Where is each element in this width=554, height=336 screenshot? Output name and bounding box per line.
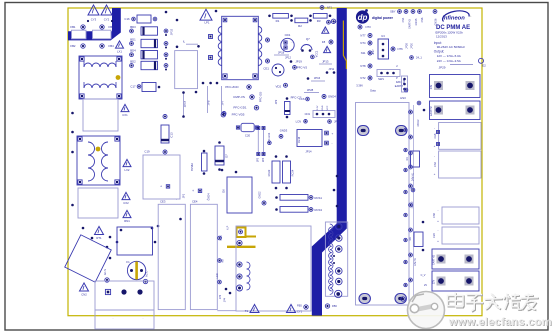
svg-text:F8: F8 xyxy=(322,40,326,44)
svg-text:BD2: BD2 xyxy=(130,59,136,63)
svg-text:RCS1: RCS1 xyxy=(315,196,323,200)
svg-text:-: - xyxy=(434,126,435,130)
svg-text:dp: dp xyxy=(358,13,368,22)
svg-text:PFC-GD1: PFC-GD1 xyxy=(233,106,246,110)
svg-text:+: + xyxy=(434,172,436,176)
svg-text:SW1: SW1 xyxy=(378,77,384,81)
svg-text:CMP-VS: CMP-VS xyxy=(233,95,245,99)
svg-text:NT3: NT3 xyxy=(366,25,372,29)
svg-text:C17: C17 xyxy=(130,85,136,89)
svg-text:NT7: NT7 xyxy=(360,34,366,38)
svg-text:2V: 2V xyxy=(424,284,427,287)
svg-text:LP1: LP1 xyxy=(205,21,210,25)
svg-text:24V: 24V xyxy=(430,84,433,89)
svg-text:EARTH3: EARTH3 xyxy=(409,19,412,29)
svg-text:D7: D7 xyxy=(225,154,229,158)
svg-text:JP4: JP4 xyxy=(224,297,227,302)
svg-text:CE16: CE16 xyxy=(298,136,301,143)
svg-text:LX2: LX2 xyxy=(125,168,130,172)
svg-text:+: + xyxy=(437,239,439,243)
svg-text:FB5: FB5 xyxy=(297,304,302,308)
svg-text:RCS4: RCS4 xyxy=(292,169,295,176)
svg-text:+: + xyxy=(160,185,162,189)
svg-text:C20: C20 xyxy=(245,133,251,137)
svg-text:GND4: GND4 xyxy=(208,193,211,201)
svg-text:CX2: CX2 xyxy=(123,201,129,205)
svg-text:3.36V: 3.36V xyxy=(356,84,363,88)
svg-text:LCN: LCN xyxy=(296,119,301,123)
svg-text:JP19: JP19 xyxy=(295,60,302,64)
svg-text:12V-I2: 12V-I2 xyxy=(411,201,414,209)
svg-text:T1: T1 xyxy=(245,309,249,313)
svg-text:GND4: GND4 xyxy=(328,95,336,99)
svg-text:+: + xyxy=(192,189,194,193)
svg-text:PFC-GD: PFC-GD xyxy=(259,92,263,102)
svg-text:FB2: FB2 xyxy=(70,44,76,48)
svg-text:C_V: C_V xyxy=(421,274,426,277)
svg-text:CE3: CE3 xyxy=(160,200,166,204)
svg-text:+: + xyxy=(437,219,439,223)
svg-text:VD2: VD2 xyxy=(275,84,281,88)
svg-text:HS3: HS3 xyxy=(400,96,406,100)
svg-text:HB: HB xyxy=(222,259,225,263)
svg-text:JP18: JP18 xyxy=(278,50,285,54)
svg-text:C13: C13 xyxy=(170,132,174,138)
svg-text:-: - xyxy=(143,316,144,320)
svg-text:CE5: CE5 xyxy=(433,232,436,237)
svg-text:24V-H1: 24V-H1 xyxy=(412,172,415,181)
svg-text:+: + xyxy=(291,47,293,51)
svg-text:+: + xyxy=(332,132,334,136)
svg-text:CY2: CY2 xyxy=(104,18,110,22)
svg-text:CS2: CS2 xyxy=(434,161,437,166)
svg-text:PFC-VS: PFC-VS xyxy=(297,65,307,69)
svg-text:-: - xyxy=(434,154,435,158)
svg-text:CN6: CN6 xyxy=(421,17,424,22)
svg-text:CN1: CN1 xyxy=(305,112,311,116)
svg-text:PFC-ZCD: PFC-ZCD xyxy=(225,85,239,89)
svg-text:VCC: VCC xyxy=(327,105,329,110)
svg-text:F1: F1 xyxy=(126,260,130,264)
svg-text:Output:: Output: xyxy=(434,50,445,54)
svg-text:9SN6A: 9SN6A xyxy=(191,163,194,171)
svg-text:NT6: NT6 xyxy=(398,47,404,51)
svg-text:-: - xyxy=(176,197,177,201)
svg-text:EARTH: EARTH xyxy=(395,85,404,88)
svg-text:FB3: FB3 xyxy=(109,25,115,29)
svg-text:CY1: CY1 xyxy=(297,310,303,314)
svg-text:JP20: JP20 xyxy=(411,43,414,49)
svg-text:VCC1: VCC1 xyxy=(316,50,319,57)
svg-text:EARTH1: EARTH1 xyxy=(433,254,436,264)
svg-text:JP16: JP16 xyxy=(314,76,321,80)
svg-text:-: - xyxy=(438,228,439,232)
svg-text:GND2: GND2 xyxy=(259,191,262,199)
svg-text:CX1: CX1 xyxy=(122,113,128,117)
svg-text:EARTH2: EARTH2 xyxy=(430,106,433,116)
svg-text:JP1: JP1 xyxy=(182,193,186,198)
svg-text:-: - xyxy=(438,208,439,212)
svg-text:CE4: CE4 xyxy=(192,200,198,204)
svg-text:FB4: FB4 xyxy=(109,44,115,48)
svg-text:BD1: BD1 xyxy=(130,37,136,41)
svg-text:NT4: NT4 xyxy=(360,41,366,45)
svg-text:JP14: JP14 xyxy=(305,150,312,154)
svg-text:24V — 0.6A~3.5A: 24V — 0.6A~3.5A xyxy=(437,59,461,63)
svg-text:NT8: NT8 xyxy=(360,64,366,68)
svg-text:CY3: CY3 xyxy=(91,18,97,22)
svg-text:NT2: NT2 xyxy=(360,76,366,80)
svg-text:JP26: JP26 xyxy=(406,43,409,49)
svg-text:C19: C19 xyxy=(144,150,150,154)
svg-text:JP15: JP15 xyxy=(170,28,174,35)
svg-text:GND3: GND3 xyxy=(280,129,288,133)
svg-text:24_1: 24_1 xyxy=(416,56,422,60)
svg-text:NT5: NT5 xyxy=(333,20,339,24)
svg-text:Data: Data xyxy=(370,89,376,93)
svg-text:-: - xyxy=(332,142,333,146)
svg-text:12V: 12V xyxy=(433,279,436,284)
svg-text:C16: C16 xyxy=(124,17,130,21)
svg-text:LCS: LCS xyxy=(299,97,304,101)
svg-text:12V-H1: 12V-H1 xyxy=(414,257,417,266)
svg-text:R2: R2 xyxy=(298,24,302,28)
svg-text:JP28: JP28 xyxy=(307,88,314,92)
svg-text:BD4: BD4 xyxy=(130,49,136,53)
svg-text:-: - xyxy=(292,40,293,44)
svg-text:U3: U3 xyxy=(381,34,385,38)
svg-text:24V-I2: 24V-I2 xyxy=(417,119,420,127)
svg-text:PFC-VD5: PFC-VD5 xyxy=(232,113,245,117)
svg-text:JP11: JP11 xyxy=(328,67,334,71)
svg-text:RT1: RT1 xyxy=(96,236,102,240)
svg-text:www.elecfans.com: www.elecfans.com xyxy=(448,317,552,329)
svg-text:CN2: CN2 xyxy=(81,293,87,297)
svg-text:3-3V: 3-3V xyxy=(317,105,319,110)
svg-text:D6: D6 xyxy=(222,189,226,193)
svg-text:JP29: JP29 xyxy=(439,66,446,70)
svg-text:JP13: JP13 xyxy=(322,60,329,64)
svg-text:CD1: CD1 xyxy=(285,33,291,37)
svg-text:GND: GND xyxy=(322,105,324,110)
svg-text:JP10: JP10 xyxy=(334,120,341,124)
svg-text:I-LP: I-LP xyxy=(227,225,230,230)
svg-text:JP27: JP27 xyxy=(373,49,375,55)
svg-text:SBY: SBY xyxy=(390,10,396,14)
svg-text:NT1: NT1 xyxy=(327,6,333,10)
svg-text:AC-L: AC-L xyxy=(145,270,149,276)
svg-text:CS6: CS6 xyxy=(433,212,436,217)
svg-text:AC-N: AC-N xyxy=(103,269,107,275)
svg-text:digital power: digital power xyxy=(372,16,394,20)
svg-text:GND: GND xyxy=(404,79,406,84)
svg-text:JP3: JP3 xyxy=(219,294,222,299)
svg-text:Infineon: Infineon xyxy=(442,16,465,22)
svg-text:GND5: GND5 xyxy=(415,18,418,25)
svg-text:90-264V AC 50/60Hz: 90-264V AC 50/60Hz xyxy=(437,45,466,49)
svg-text:FB6: FB6 xyxy=(332,304,337,308)
svg-text:BD3: BD3 xyxy=(130,25,136,29)
svg-text:LGD: LGD xyxy=(216,273,219,278)
svg-text:JP12: JP12 xyxy=(285,56,291,60)
svg-text:-: - xyxy=(113,316,114,320)
svg-text:12/2013: 12/2013 xyxy=(436,34,447,38)
svg-text:+: + xyxy=(434,144,436,148)
svg-text:Q7: Q7 xyxy=(306,37,310,41)
svg-text:CE1: CE1 xyxy=(263,67,269,71)
svg-text:R3: R3 xyxy=(317,19,321,23)
svg-text:N11: N11 xyxy=(361,51,366,55)
svg-text:LX1: LX1 xyxy=(117,50,122,54)
svg-text:12V — 9.5A~5.0A: 12V — 9.5A~5.0A xyxy=(437,54,461,58)
svg-text:RCS3: RCS3 xyxy=(315,208,323,212)
svg-text:R1: R1 xyxy=(276,19,280,23)
svg-text:RN1: RN1 xyxy=(124,219,130,223)
svg-text:RCA2: RCA2 xyxy=(268,169,271,176)
svg-text:JP9: JP9 xyxy=(274,99,278,104)
svg-text:FB1: FB1 xyxy=(70,25,76,29)
svg-text:E2: E2 xyxy=(482,64,486,68)
svg-text:CN4: CN4 xyxy=(402,17,405,22)
